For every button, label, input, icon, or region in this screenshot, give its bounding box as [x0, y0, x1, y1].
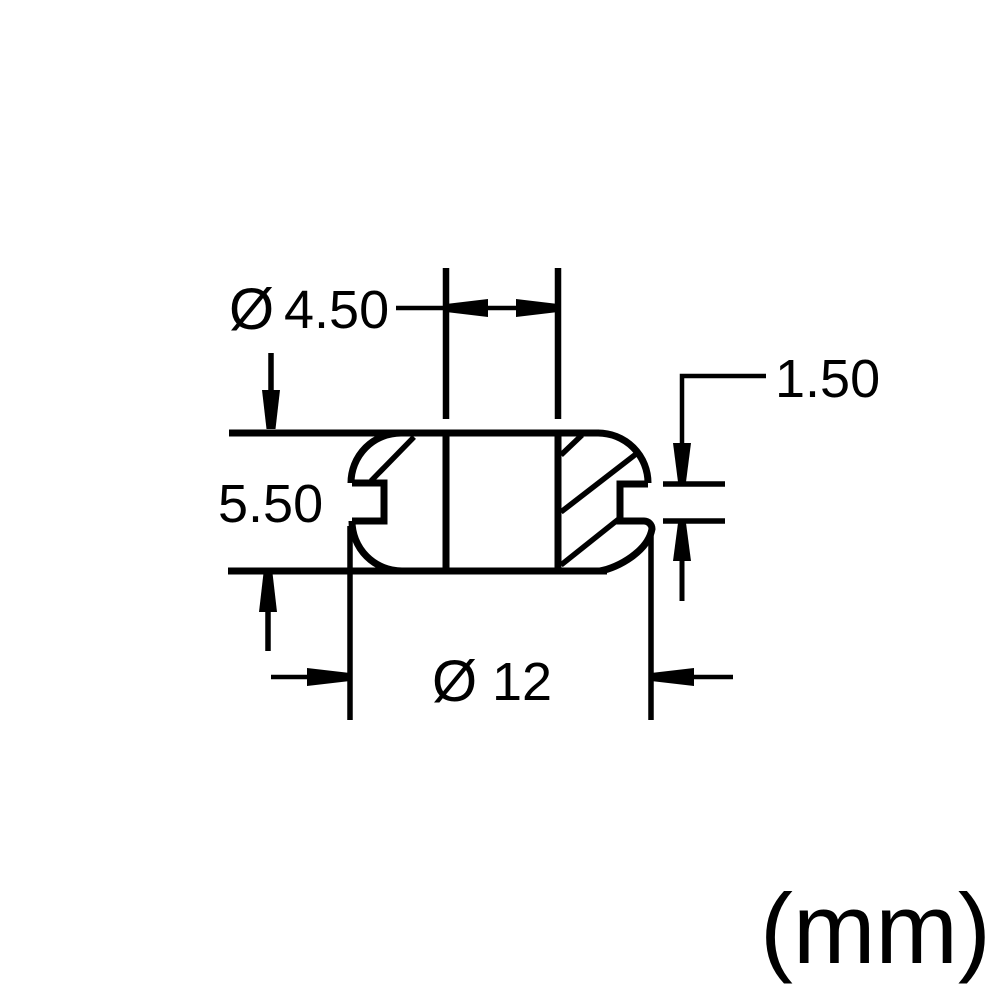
- svg-text:Ø: Ø: [432, 649, 477, 714]
- dia 12 left arrowhead: [307, 668, 350, 686]
- grommet right groove notch and bottom-right lip: [600, 484, 652, 571]
- dia 4.50 right extension line: [555, 268, 562, 419]
- dia 4.50 right arrowhead: [516, 299, 558, 317]
- grommet top-left corner arc: [351, 433, 401, 483]
- svg-text:12: 12: [492, 652, 552, 712]
- dia 12 right extension line: [648, 531, 654, 720]
- dia 12 left dimension line: [271, 675, 350, 680]
- dia 4.50 dimension line: [396, 306, 558, 311]
- hatch line right middle: [561, 454, 636, 512]
- svg-text:(mm): (mm): [760, 873, 991, 984]
- 5.50 top arrow stem: [268, 353, 274, 395]
- 5.50 bottom arrow stem: [265, 608, 271, 651]
- hole right wall: [555, 433, 562, 571]
- grommet bottom face line with 5.50 extension: [228, 568, 607, 575]
- svg-text:5.50: 5.50: [218, 474, 323, 534]
- grommet left groove notch: [352, 483, 384, 521]
- grommet bottom-left corner arc: [352, 521, 402, 571]
- 1.50 bottom arrowhead: [673, 523, 691, 561]
- 1.50 top extension line: [663, 481, 725, 487]
- 1.50 top arrowhead: [673, 443, 691, 482]
- hole left wall: [443, 433, 450, 571]
- dia 12 right arrowhead: [651, 668, 694, 686]
- 1.50 leader and top arrow stem: [682, 376, 766, 445]
- svg-text:1.50: 1.50: [775, 349, 880, 409]
- 1.50 bottom arrow stem: [680, 558, 685, 601]
- dia 12 right dimension line: [651, 675, 733, 680]
- dia 4.50 left extension line: [443, 268, 450, 419]
- dia 4.50 left arrowhead: [446, 299, 488, 317]
- grommet top-right corner arc: [598, 433, 648, 483]
- 5.50 bottom arrowhead: [259, 573, 277, 612]
- hatch line right bottom: [561, 518, 620, 565]
- svg-text:Ø: Ø: [229, 277, 274, 342]
- grommet top face line with 5.50 extension: [229, 430, 599, 437]
- dia 12 left extension line: [347, 526, 353, 720]
- hatch line right top short: [561, 435, 582, 455]
- svg-text:4.50: 4.50: [284, 280, 389, 340]
- hatch line left lip: [371, 437, 414, 481]
- 5.50 top arrowhead: [262, 390, 280, 429]
- 1.50 bottom extension line: [663, 518, 725, 524]
